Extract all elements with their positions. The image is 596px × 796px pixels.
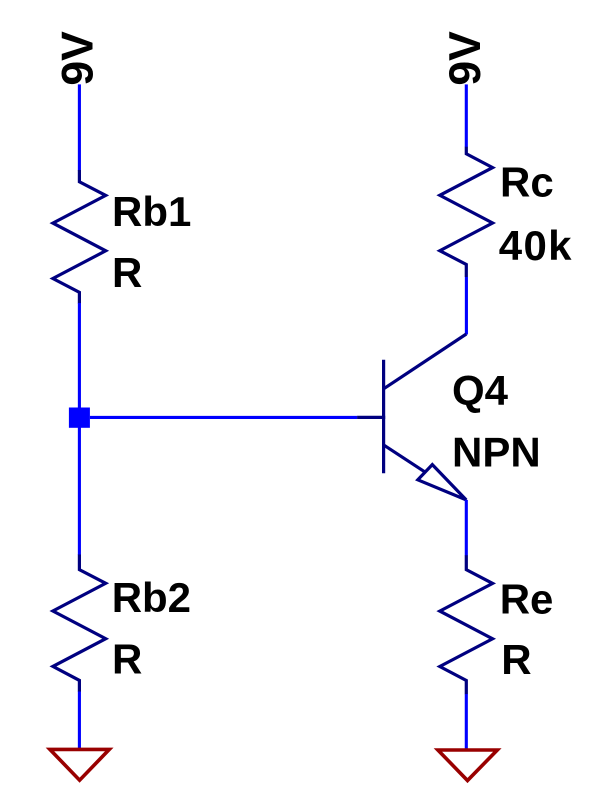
- resistor Re: [440, 555, 493, 694]
- svg-text:R: R: [501, 636, 531, 683]
- svg-text:9V: 9V: [441, 31, 490, 86]
- resistor Rb2: [53, 555, 106, 692]
- collector diagonal: [384, 334, 466, 389]
- transistor Q4 (NPN): [357, 334, 466, 500]
- ground (left): [50, 749, 109, 780]
- wire: Rb1 to junction node to Rb2: [78, 303, 81, 555]
- wire: Rb2 to left ground: [78, 692, 81, 751]
- resistor Rb1: [53, 170, 106, 304]
- base lead: [357, 416, 385, 419]
- resistor Rc: [440, 147, 493, 277]
- node: junction square: [69, 408, 90, 428]
- wire: left supply to Rb1: [78, 84, 81, 170]
- emitter diagonal: [384, 445, 426, 473]
- svg-text:Re: Re: [500, 575, 554, 622]
- base bar: [382, 360, 385, 473]
- wire: base wire from junction to Q4: [90, 416, 357, 419]
- svg-text:Rb2: Rb2: [112, 574, 191, 621]
- wire: Q4 emitter to Re: [465, 500, 468, 556]
- wire: right supply to Rc: [465, 84, 468, 147]
- svg-text:40k: 40k: [499, 222, 573, 269]
- svg-text:R: R: [112, 249, 142, 296]
- svg-text:R: R: [112, 636, 142, 683]
- svg-text:NPN: NPN: [452, 428, 541, 475]
- emitter arrow (open): [418, 465, 466, 500]
- wire: Re to right ground: [465, 694, 468, 750]
- svg-text:9V: 9V: [54, 31, 103, 86]
- svg-text:Rb1: Rb1: [112, 188, 191, 235]
- svg-text:Rc: Rc: [500, 159, 554, 206]
- wire: Rc to Q4 collector: [465, 277, 468, 335]
- svg-text:Q4: Q4: [452, 367, 509, 414]
- ground (right): [438, 750, 497, 781]
